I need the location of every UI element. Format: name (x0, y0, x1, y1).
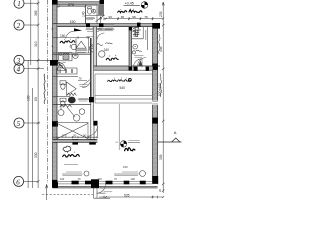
right wall window opening (152, 101, 158, 105)
svg-text:150: 150 (60, 34, 66, 38)
wc3 rotated smudge (145, 30, 147, 40)
courtyard dim numbers (109, 15, 148, 19)
right margin rotated note a (159, 34, 161, 54)
right dim ticks (162, 24, 165, 192)
utility circle stem (58, 105, 64, 116)
kitchen outline (95, 74, 152, 103)
bedroom2 small squiggle (105, 43, 112, 44)
shared wall rotated label (44, 74, 45, 104)
shower room tag (76, 50, 87, 53)
wc3 dark dots (133, 28, 140, 33)
svg-text:110: 110 (98, 177, 103, 181)
window dim numbers left (60, 177, 81, 181)
utility circle b (73, 115, 80, 122)
wall h104.3 (53, 103, 91, 105)
bedroom2 label squiggle (106, 58, 119, 60)
svg-text:140: 140 (131, 177, 136, 181)
washer hatched square (63, 53, 69, 59)
bottom outer wall lines (53, 186, 158, 188)
svg-text:80: 80 (34, 97, 38, 101)
stairs treads (98, 5, 104, 16)
closet box (57, 68, 78, 74)
svg-text:80: 80 (121, 15, 125, 19)
tag under north wall (86, 29, 102, 32)
wc3 wall poche (129, 27, 132, 70)
column grid5 left (52, 121, 58, 126)
left dimension line B (37, 0, 39, 188)
column mid-wall b (146, 67, 150, 71)
bedroom3 mid tag (64, 163, 78, 165)
hall level tag (128, 140, 140, 142)
corridor dim 70 (78, 77, 88, 87)
wall h53 (53, 53, 91, 54)
svg-text:70: 70 (78, 77, 82, 81)
wc3 circle b (132, 50, 142, 54)
grid line 2 leader (24, 24, 38, 26)
courtyard label dots (120, 8, 134, 10)
left dimension line A (30, 0, 32, 65)
entry door arc (97, 184, 106, 193)
column north-east big (152, 23, 160, 29)
bedroom1 label dots (64, 38, 71, 40)
svg-text:+0.45: +0.45 (125, 2, 134, 6)
shower triangle (76, 41, 86, 48)
corridor wall dark (90, 38, 92, 97)
svg-text:365: 365 (34, 10, 38, 16)
wc tag text (86, 18, 95, 20)
bedroom1 dim line (53, 36, 90, 39)
eave dashed line (42, 194, 93, 196)
wall h140 (53, 140, 98, 143)
column grid3 left (50, 60, 58, 66)
kitchen counter (95, 96, 152, 99)
interior dim numbers (62, 134, 87, 138)
courtyard dim line (104, 17, 164, 20)
interior dim line 137 (53, 136, 98, 138)
svg-text:20: 20 (158, 189, 162, 192)
right wall (153, 24, 158, 184)
wc3 bottom corner col (129, 66, 132, 70)
bedroom3 label dots (67, 151, 75, 153)
grid bubble 1 (14, 0, 24, 8)
wc3 circle a (133, 44, 138, 49)
wc3 top corner col (129, 27, 132, 31)
courtyard level mark (124, 2, 141, 6)
window dim numbers right (98, 177, 136, 181)
stairs break line (96, 15, 105, 22)
column wall140 right (89, 139, 96, 144)
svg-text:4: 4 (17, 66, 21, 74)
column wall140 mid (72, 139, 78, 144)
corridor wall lower pair (91, 102, 94, 139)
bedroom2 circle (99, 51, 105, 57)
property dashed line (47, 0, 49, 183)
svg-text:175: 175 (62, 134, 67, 138)
grid bubble 4 (14, 64, 24, 74)
svg-text:525: 525 (124, 193, 130, 197)
wc2 door triangles (138, 60, 143, 66)
column corridor low (93, 121, 97, 126)
bottom dim line (99, 196, 164, 199)
shaft west line (87, 37, 89, 53)
svg-text:355: 355 (159, 154, 163, 160)
corridor wall east (93, 27, 96, 121)
grid bubble 5 (14, 118, 24, 128)
stairs shading (97, 5, 104, 16)
stair void diagonals (57, 123, 88, 138)
kitchen label circle word (128, 78, 131, 81)
svg-text:20: 20 (73, 134, 77, 138)
svg-text:520+405: 520+405 (158, 83, 162, 96)
grid line 1 leader (24, 2, 38, 4)
kitchen label squiggle (108, 80, 132, 82)
section marker A (158, 130, 182, 142)
left dimension line D (32, 88, 34, 188)
bath partition vline (75, 39, 77, 54)
svg-text:278: 278 (68, 3, 74, 7)
wc2 door arc (138, 58, 146, 66)
svg-text:68: 68 (132, 15, 136, 19)
svg-text:5: 5 (17, 120, 21, 128)
grid line 6 leader (24, 180, 38, 182)
left wall tiny marks (51, 27, 54, 47)
svg-text:110: 110 (60, 177, 65, 181)
left dim ticks (37, 2, 40, 183)
svg-text:435: 435 (159, 46, 163, 52)
column north-wall b (99, 23, 104, 27)
mid wall h66-70 (94, 66, 160, 70)
bedroom2 sink squiggle (96, 44, 102, 46)
tag right of stairs col (105, 25, 115, 30)
svg-text:150: 150 (70, 20, 76, 24)
column bottom mid (91, 179, 99, 187)
door tag circle b (73, 53, 78, 58)
column L-bottom (52, 182, 58, 188)
left dimension line C (27, 60, 29, 188)
svg-text:235: 235 (159, 11, 163, 17)
svg-text:240: 240 (104, 48, 110, 52)
grid line 5 leader (24, 122, 40, 124)
wc3 inner line (147, 27, 149, 50)
svg-text:A: A (174, 130, 177, 135)
grid bubble 6 (14, 176, 24, 186)
svg-text:150: 150 (123, 165, 128, 169)
column north-wall a (86, 23, 90, 27)
corridor door leaf (83, 79, 91, 85)
svg-text:78: 78 (144, 15, 148, 19)
kitchen label dots (114, 77, 127, 79)
svg-text:190: 190 (26, 95, 30, 101)
hall label squiggle (125, 148, 136, 151)
column east bottom (152, 176, 158, 184)
north wall of main building (53, 24, 160, 27)
wc toilet (88, 7, 96, 14)
wall h96.6 (53, 96, 70, 98)
washer knob (60, 53, 62, 55)
svg-text:2: 2 (17, 22, 21, 30)
stair void box (57, 122, 88, 139)
bedroom3 label squiggle (63, 154, 80, 157)
column east grid5 (152, 118, 158, 124)
svg-text:6: 6 (16, 178, 20, 186)
courtyard vert dim (82, 8, 86, 24)
hall window tag (114, 171, 145, 177)
utility zigzag (60, 105, 72, 108)
hall window black piers (106, 181, 146, 185)
wc3 partition (132, 27, 144, 39)
wall h76.4 (53, 75, 78, 77)
wc3 vanity scribble (132, 27, 139, 37)
column mid-wall a (134, 67, 138, 71)
wc-block left wall (84, 5, 86, 24)
outer left wall (53, 0, 57, 188)
hall door arc (87, 126, 97, 136)
right margin rotated note b (160, 74, 161, 97)
svg-text:140: 140 (82, 11, 86, 17)
bedroom3 window tag (62, 171, 89, 176)
toilet2 (60, 98, 66, 106)
hall benchmark (120, 141, 126, 147)
column L-top (52, 0, 58, 5)
bedroom2 label dots (110, 55, 117, 57)
svg-text:310: 310 (34, 41, 38, 47)
utility diagonal (67, 107, 75, 117)
hall door leaf (96, 126, 98, 136)
grid bubble 3 (14, 55, 24, 65)
courtyard dim 278 line (57, 6, 86, 8)
top-left block top wall (53, 2, 104, 5)
washer rect (59, 53, 73, 61)
column north-wall c (137, 23, 141, 27)
grid line 4 leader (24, 68, 44, 70)
bedroom2 door tag (97, 28, 114, 30)
corridor door arc mid (82, 79, 91, 88)
wc3 door arc (133, 59, 142, 68)
shower2 triangle (66, 82, 76, 95)
column east grid3 (152, 64, 158, 70)
corridor head line (86, 36, 93, 38)
courtyard label squiggle (118, 10, 143, 13)
toilet1 (60, 81, 66, 90)
bedroom1 door arc (66, 31, 74, 38)
svg-text:540: 540 (120, 86, 126, 90)
utility circle c (79, 109, 85, 115)
svg-text:1: 1 (17, 0, 21, 8)
bedroom3 plant (63, 146, 71, 152)
stairs landing line (85, 14, 104, 16)
radiator zigzag (67, 93, 77, 96)
bedroom1 door leaf (74, 28, 82, 31)
bedroom2 door arc (97, 33, 105, 41)
hall vline (118, 104, 120, 150)
right dim top arrow (162, 2, 164, 5)
column top-block NE (100, 0, 105, 4)
south window band lines (57, 181, 153, 184)
column corridor mid (89, 97, 94, 102)
bedroom1 corner sink (70, 44, 77, 50)
wc faucet squiggle (93, 9, 95, 13)
door arc cluster (57, 62, 65, 70)
dark bidet (68, 97, 76, 104)
bottom-left wall black piers (52, 180, 91, 185)
bedroom1 label squiggle (60, 41, 75, 43)
stairs west line (96, 5, 98, 24)
entry tag (104, 191, 113, 193)
right dimension line (162, 2, 164, 193)
porch side walls (94, 188, 110, 199)
door tag circle a (89, 45, 96, 52)
stairs arrow (100, 17, 102, 23)
corridor tag arcs (78, 98, 89, 101)
svg-text:330: 330 (34, 152, 38, 158)
benchmark symbol (141, 2, 148, 9)
grid bubble 2 (14, 20, 24, 30)
property arrow bottom (46, 184, 48, 200)
svg-text:90: 90 (83, 134, 87, 138)
wc3 tag (134, 55, 143, 57)
grid line 3 leader (24, 59, 50, 61)
svg-text:90: 90 (109, 15, 113, 19)
